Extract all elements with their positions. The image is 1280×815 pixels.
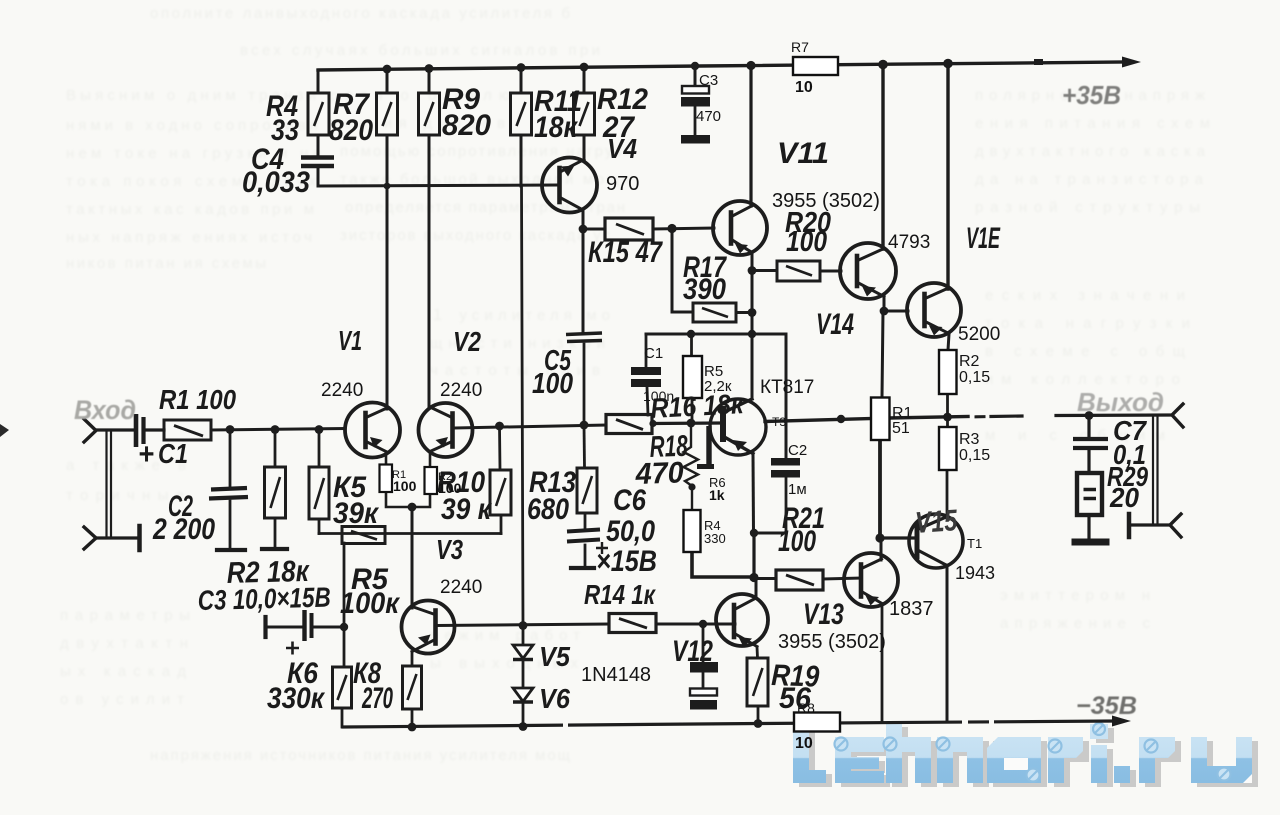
svg-text:параметры: параметры	[60, 607, 190, 624]
-35V rail arrowhead	[1112, 716, 1131, 727]
svg-text:Т3: Т3	[772, 415, 786, 429]
resistor R15 47	[605, 218, 653, 240]
wire: R1 to V1 base	[211, 429, 345, 431]
svg-text:V1: V1	[338, 325, 362, 356]
wire: V3 base bus to R14	[437, 624, 609, 626]
svg-text:3955 (3502): 3955 (3502)	[778, 631, 886, 653]
wire: mid line dashes to output	[976, 415, 984, 418]
svg-text:100: 100	[393, 478, 417, 494]
wire: output node to C7	[1087, 416, 1090, 438]
node rail R19	[754, 719, 763, 728]
svg-text:C3 10,0×15В: C3 10,0×15В	[197, 582, 331, 616]
node V4 base	[384, 183, 391, 190]
ground T-bar of R2 18k	[262, 547, 287, 551]
wire: KT817 to output mid line	[765, 419, 872, 422]
wire: V4 collector down to R15 node	[582, 210, 585, 229]
svg-text:0,15: 0,15	[959, 369, 990, 386]
input ground end bar	[137, 526, 142, 550]
svg-text:КТ817: КТ817	[760, 377, 814, 398]
resistor R3 0,15	[939, 427, 957, 470]
wire: VBE multiplier top bus	[646, 333, 753, 336]
svg-text:100к: 100к	[340, 587, 401, 620]
node C4 470	[699, 620, 707, 628]
resistor R7 10 on +35V rail	[793, 57, 838, 75]
C4 470: white plate	[690, 689, 717, 696]
wire: V14 collector column	[881, 64, 884, 249]
wire: branch to C2 bottom	[754, 532, 786, 535]
svg-text:+35В: +35В	[1062, 80, 1121, 110]
svg-text:R1 100: R1 100	[159, 384, 236, 415]
transistor V3 2240	[402, 601, 455, 654]
svg-text:330: 330	[704, 531, 726, 546]
transistor V4 970	[542, 158, 597, 213]
svg-text:R3: R3	[959, 431, 980, 448]
transistor V12 3955	[716, 594, 768, 647]
wire: node to T1 base	[880, 536, 914, 539]
svg-text:2 200: 2 200	[152, 513, 215, 546]
watermark letter a	[987, 737, 1041, 783]
wire: V11 emitter node to R20	[752, 269, 777, 272]
svg-text:2240: 2240	[440, 577, 482, 598]
node rail C3	[691, 62, 699, 70]
svg-text:470: 470	[696, 108, 721, 125]
wire: R1 51 bottom thick	[878, 440, 882, 538]
C4 470: black plate	[690, 700, 717, 710]
svg-text:0,15: 0,15	[959, 447, 990, 464]
resistor R1 100 emitter	[380, 465, 393, 493]
rail scan gaps	[962, 718, 968, 727]
wire: R5 2.2k top stem	[690, 334, 693, 356]
node R2 R3	[943, 413, 952, 422]
wire: V11 collector column	[749, 65, 752, 206]
svg-text:820: 820	[329, 114, 373, 147]
wire: C3 right lead	[313, 626, 344, 629]
watermark screws	[835, 723, 1231, 782]
wire: R10 top stem	[498, 426, 501, 470]
wire: V12 collector up	[755, 578, 758, 598]
wire: C2 2200 column	[229, 429, 232, 487]
wire: C2 bottom stem	[785, 478, 788, 533]
wire: join down to V3 collector	[411, 507, 414, 608]
wire: V13 emitter column to rail	[881, 604, 884, 722]
svg-text:C1: C1	[158, 438, 188, 469]
svg-text:всех случаях больших сигнал: всех случаях больших сигналов при	[240, 42, 600, 59]
node rail V14	[878, 60, 888, 70]
wire: R12 top stem	[583, 67, 586, 94]
wire: R6 bottom to rail	[341, 708, 344, 727]
C6 ground T-bar	[571, 566, 594, 570]
svg-text:ения питания схем: ения питания схем	[975, 115, 1210, 132]
transistor V16 5200	[907, 283, 961, 337]
svg-text:100: 100	[438, 480, 462, 496]
node V4 emitter R15	[579, 225, 588, 234]
svg-text:20: 20	[1109, 482, 1139, 513]
resistor R20 100 box	[777, 261, 820, 281]
resistor R8 270	[403, 666, 422, 709]
watermark letter t	[793, 719, 826, 783]
svg-text:2240: 2240	[440, 380, 482, 401]
svg-text:390: 390	[683, 273, 726, 306]
svg-text:зисторов выходного каскада: зисторов выходного каскада ус	[340, 227, 611, 244]
wire: R5 100k left end down through C3 node to R6	[343, 543, 346, 667]
wire: T1 emitter column to rail	[946, 565, 949, 722]
edge mark left	[0, 424, 9, 437]
wire: node to V16 base	[884, 310, 908, 313]
wire: C1 100n top stem	[645, 334, 648, 367]
svg-text:100: 100	[786, 226, 827, 258]
svg-text:1837: 1837	[889, 598, 934, 620]
svg-text:10: 10	[795, 79, 813, 96]
resistor R4 33	[308, 93, 329, 135]
wire: V3 emitter to R8	[411, 652, 414, 666]
node R10	[495, 422, 504, 431]
rail tick mark	[1034, 59, 1043, 65]
diode V6	[513, 688, 533, 702]
node T1 base	[875, 533, 884, 542]
wire: R8 bottom to rail	[411, 709, 414, 727]
svg-text:100n: 100n	[643, 388, 674, 404]
node bus left	[687, 330, 695, 338]
wire: R2 18k column	[274, 430, 277, 467]
resistor R13 680	[577, 468, 597, 513]
output speaker double line	[1153, 417, 1158, 524]
wire: V14 emitter to node	[883, 297, 886, 311]
svg-text:V1Е: V1Е	[966, 222, 1001, 255]
wire: R1 100 / R2 100 join	[386, 492, 430, 507]
wire: emitter bias bus	[319, 532, 501, 535]
wire: input to C1	[96, 428, 134, 431]
wire: mid line right of R1 51	[889, 417, 968, 419]
wire: R20 to V14 base	[820, 270, 841, 273]
node K5 39k	[315, 425, 324, 434]
svg-text:C1: C1	[644, 345, 663, 362]
svg-text:39 к: 39 к	[441, 493, 493, 526]
svg-text:−35В: −35В	[1076, 692, 1137, 720]
svg-text:Т1: Т1	[967, 536, 982, 551]
svg-text:Вход: Вход	[74, 395, 136, 425]
capacitor C1 input electrolytic	[136, 414, 144, 447]
wire: R7 top stem	[386, 68, 389, 93]
resistor R21 100 box	[776, 570, 823, 590]
svg-text:К15 47: К15 47	[588, 236, 663, 269]
watermark shadow	[799, 723, 1258, 787]
resistor R1 51	[871, 398, 890, 441]
svg-text:Выход: Выход	[1077, 387, 1164, 417]
svg-text:ых каскад: ых каскад	[60, 663, 186, 680]
wire: R19 bottom to rail	[757, 706, 760, 723]
wire: R17 loop	[672, 228, 693, 312]
node V14 emitter	[880, 307, 889, 316]
resistor R19 56	[747, 658, 768, 706]
node R2 18k	[271, 425, 280, 434]
tehnari.ru watermark	[793, 719, 1258, 787]
wire: V1 emitter to R1 100	[385, 452, 388, 464]
wire: V12 emitter to R19	[756, 647, 759, 658]
resistor R6 330k	[333, 667, 352, 708]
transistor V11 3955	[713, 201, 767, 255]
wire: R9 top stem	[428, 68, 431, 93]
watermark letter u	[1191, 737, 1252, 783]
wire: R21 to V13 base	[823, 578, 861, 579]
svg-text:C3: C3	[699, 72, 718, 89]
svg-text:820: 820	[442, 109, 491, 142]
svg-text:R7: R7	[791, 39, 809, 55]
capacitor C4 470 bottom: black bar	[690, 662, 718, 673]
capacitor C1 100n plates	[631, 367, 661, 387]
node C5 R13	[580, 421, 589, 430]
wire: node down to R1 51	[882, 311, 883, 397]
node C1 return	[649, 420, 656, 427]
wire: input ground lead	[96, 536, 136, 539]
resistor R1 100 input	[164, 420, 211, 440]
wire: V4 emitter node to R15	[583, 228, 605, 231]
wire: R10 bottom stem	[500, 515, 503, 534]
svg-text:V14: V14	[816, 308, 854, 341]
svg-text:R2: R2	[959, 353, 980, 370]
resistor R12 27	[574, 93, 595, 135]
node rail R9	[425, 64, 434, 73]
wire: R7 bottom to V1 collector	[386, 135, 389, 409]
resistor K5 39k body	[309, 467, 329, 519]
resistor R17 390 box	[693, 303, 736, 322]
svg-text:в схеме с общ: в схеме с общ	[985, 343, 1185, 360]
wire: R13 top stem	[583, 425, 586, 468]
svg-text:100: 100	[778, 525, 816, 558]
wire: between diodes V5 V6	[522, 659, 525, 688]
wire: R11 bottom to V4 base node	[520, 135, 523, 186]
wire: C5 bottom stem	[583, 344, 586, 425]
svg-text:двухтактн: двухтактн	[60, 635, 188, 652]
svg-text:V5: V5	[539, 641, 570, 672]
C3 470 stem	[694, 106, 697, 135]
wire: long bias column through V5 V6	[522, 186, 524, 646]
wire: R2 0.15 to mid line	[946, 394, 949, 427]
wire: K5 39k column	[318, 430, 321, 467]
node V11 base	[667, 224, 676, 233]
svg-text:1м: 1м	[788, 481, 807, 498]
svg-text:330к: 330к	[267, 682, 326, 715]
wire: C3 10.0 plate lead	[267, 626, 302, 629]
transistor T1 1943	[909, 514, 963, 568]
capacitor C5 100	[566, 333, 602, 342]
wire: R15 to V11 base	[653, 228, 714, 229]
resistor R2 100 emitter	[425, 467, 438, 494]
capacitor C4 0,033	[301, 158, 334, 167]
transistor V14 4793	[840, 243, 896, 299]
wire: R18 bottom to R4 330	[691, 487, 693, 510]
output fork	[1172, 404, 1183, 427]
wire: KT817 collector up	[751, 334, 754, 399]
node output C7	[1085, 411, 1094, 420]
wire: node down to V13 collector	[880, 538, 883, 560]
resistor R5 100k	[342, 527, 385, 544]
faded stencil labels	[74, 80, 1164, 720]
node bus right	[748, 330, 756, 338]
resistor R9 820	[419, 93, 440, 135]
svg-text:970: 970	[606, 173, 639, 195]
svg-text:50,0: 50,0	[606, 515, 655, 548]
svg-text:1N4148: 1N4148	[581, 664, 651, 686]
resistor R29 20	[1077, 473, 1102, 515]
transistor V2 2240	[419, 403, 473, 457]
resistor R11 18k	[511, 93, 532, 135]
svg-text:V2: V2	[453, 326, 481, 357]
svg-text:51: 51	[892, 420, 910, 437]
watermark letter r2	[1139, 737, 1175, 783]
svg-text:помощью сопротивления нагруз: помощью сопротивления нагрузк	[340, 143, 630, 160]
svg-text:680: 680	[527, 493, 569, 526]
plus sign of C6	[596, 542, 608, 554]
svg-text:×15В: ×15В	[596, 545, 657, 578]
wire: R12 bottom to V4 emitter	[583, 135, 586, 159]
wire: R13 to C6	[584, 513, 587, 528]
svg-text:2,2к: 2,2к	[704, 378, 732, 395]
resistor R10 39k body	[490, 470, 511, 515]
trimmer mark thick bar	[706, 426, 711, 464]
svg-text:V12: V12	[672, 635, 713, 668]
node rail V6	[519, 722, 528, 731]
wire: C7 to R29	[1087, 450, 1090, 473]
capacitor C2 2200	[209, 488, 248, 499]
R29 ground bar	[1075, 539, 1106, 546]
svg-text:V13: V13	[803, 598, 844, 631]
wire: V2 base line to R16	[455, 425, 606, 428]
svg-text:3955 (3502): 3955 (3502)	[772, 190, 880, 212]
speaker return fork	[1170, 514, 1181, 537]
watermark letter n	[937, 737, 983, 783]
wire: rail left corner down to R4	[317, 70, 320, 93]
svg-text:39к: 39к	[333, 497, 380, 530]
node mid right	[837, 415, 845, 423]
wire: V11 vertical between R17 and R20	[751, 253, 754, 334]
wire: C3 top stem	[694, 66, 697, 86]
capacitor C7 0,1	[1073, 439, 1108, 448]
watermark letter r	[1048, 737, 1083, 783]
node rail R11	[517, 63, 526, 72]
wire: C4 to V4 base	[318, 168, 558, 186]
C3 left T-plate	[263, 617, 267, 637]
svg-text:+: +	[138, 438, 154, 471]
resistor R2 0,15	[939, 350, 957, 394]
wire: C5 top stem from V4 emitter node	[582, 229, 585, 333]
wire: -35V bottom rail	[343, 721, 1115, 727]
node V12 collector	[749, 573, 758, 582]
input fork	[84, 419, 96, 442]
svg-text:18к: 18к	[534, 111, 579, 144]
node rail R7	[383, 65, 392, 74]
wire: V6 to bottom rail	[522, 701, 525, 727]
capacitor C3 470: black plate	[681, 97, 710, 107]
transistor V1 2240	[345, 403, 400, 458]
resistor R7 820	[377, 93, 398, 135]
capacitor C3 10,0x15V plates	[305, 610, 312, 641]
wire: C1 to R1	[146, 428, 164, 431]
diode V5	[513, 645, 533, 660]
node rail R8	[408, 723, 417, 732]
wire: R4 330 bottom L to V12 node	[692, 552, 753, 577]
capacitor C3 470 top: white plate	[682, 86, 709, 94]
svg-text:270: 270	[361, 682, 393, 715]
svg-text:4793: 4793	[888, 232, 930, 253]
svg-text:1943: 1943	[955, 563, 995, 583]
node V3 base diode	[519, 621, 528, 630]
ground T-bar of C2 2200	[217, 548, 245, 552]
resistor R8 10 on -35V rail	[794, 713, 840, 732]
svg-text:V3: V3	[436, 534, 463, 565]
wire: R5 2.2k bottom stem	[691, 398, 694, 422]
node R17 right	[748, 308, 757, 317]
svg-text:ов усилит: ов усилит	[60, 691, 184, 708]
wire: R14 to V12 base	[656, 623, 735, 626]
capacitor C2 1m plates	[771, 458, 800, 478]
wire: V2 emitter to R2 100	[429, 452, 432, 467]
wire: R16 to KT817 base	[652, 421, 721, 425]
node V11 emitter R20	[748, 266, 757, 275]
wire: R11 top stem	[520, 67, 523, 93]
svg-text:1k: 1k	[709, 487, 725, 503]
plus sign of C3	[286, 642, 299, 655]
transistor V13 1837	[844, 553, 898, 607]
svg-text:V15: V15	[914, 504, 959, 540]
watermark letter h	[886, 723, 931, 783]
wire: R9 bottom to V2 collector	[428, 135, 431, 407]
capacitor C6 50,0x15V	[567, 530, 600, 542]
svg-text:V4: V4	[607, 133, 637, 164]
resistor R18 470 zigzag	[684, 424, 699, 486]
resistor R16 18k	[606, 415, 652, 434]
node C2 1m bottom	[750, 529, 758, 537]
node R5 R18	[687, 419, 696, 428]
speaker return end bar	[1127, 514, 1132, 537]
wire: KT817 emitter down	[752, 454, 756, 533]
input shield double line	[107, 431, 112, 538]
node C2 2200	[226, 425, 235, 434]
C3 470 bottom bar	[681, 135, 710, 144]
node rail V11	[746, 61, 755, 70]
node rail V16	[943, 59, 953, 69]
svg-text:100: 100	[532, 368, 573, 400]
watermark letter e	[835, 737, 884, 783]
node emitter join	[408, 503, 417, 512]
node R18 R4	[688, 483, 695, 490]
watermark letter i	[1090, 724, 1108, 783]
input ground fork	[84, 527, 96, 549]
svg-text:470: 470	[634, 456, 684, 491]
svg-text:R8: R8	[797, 700, 815, 716]
svg-text:V6: V6	[539, 683, 570, 714]
resistor R2 18k body	[265, 467, 286, 518]
watermark dot	[1114, 766, 1130, 783]
wire: speaker return lead	[1131, 523, 1170, 526]
svg-text:10: 10	[795, 735, 813, 752]
wire: R17 right to emitter column	[736, 311, 752, 314]
svg-text:тактных кас кадов при м: тактных кас кадов при м	[66, 201, 314, 218]
wire: R29 to ground bar	[1087, 515, 1090, 538]
node C3 10.0	[340, 623, 348, 631]
svg-text:V11: V11	[777, 137, 829, 170]
svg-text:2240: 2240	[321, 380, 363, 401]
trimmer mark foot	[697, 464, 714, 469]
transistor T3 KT817	[710, 399, 766, 455]
wire: +35V top rail	[318, 62, 1126, 70]
node rail R12	[580, 63, 589, 72]
wire: R3 0.15 down to T1 collector	[946, 470, 949, 518]
resistor R5 2,2k	[683, 356, 702, 398]
svg-text:R14 1к: R14 1к	[584, 579, 656, 610]
wire: R21 node to box	[754, 577, 776, 580]
wire: C1 bottom stem	[647, 387, 648, 415]
svg-text:ников питан ия схемы: ников питан ия схемы	[66, 255, 266, 272]
